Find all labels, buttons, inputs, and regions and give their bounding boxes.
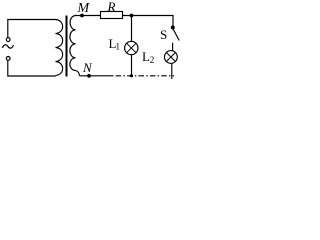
svg-text:R: R	[107, 0, 116, 14]
svg-text:2: 2	[150, 55, 155, 65]
svg-text:L: L	[142, 49, 150, 64]
svg-text:1: 1	[116, 42, 121, 52]
svg-text:N: N	[82, 60, 93, 75]
svg-text:S: S	[160, 27, 167, 42]
svg-text:M: M	[77, 1, 91, 16]
